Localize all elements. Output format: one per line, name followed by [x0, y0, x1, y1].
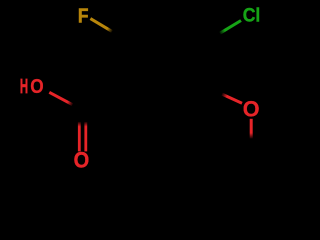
- svg-text:F: F: [78, 5, 89, 28]
- svg-text:O: O: [243, 97, 260, 122]
- svg-text:O: O: [74, 148, 90, 173]
- svg-text:O: O: [30, 76, 43, 98]
- svg-text:H: H: [20, 76, 28, 98]
- svg-text:Cl: Cl: [243, 5, 261, 27]
